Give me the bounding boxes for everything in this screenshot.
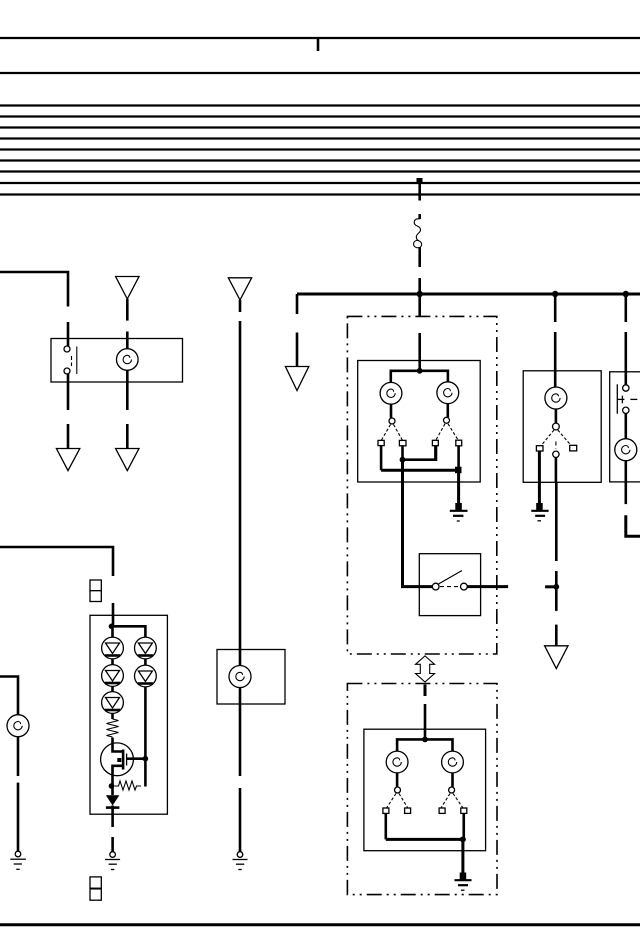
wire entry <box>401 585 433 588</box>
wire <box>126 299 129 321</box>
LED cluster box (high mount stop light) <box>90 615 167 814</box>
switch blade <box>558 430 571 445</box>
wire <box>555 482 558 561</box>
wire <box>17 783 20 852</box>
LED D5 <box>135 665 157 687</box>
wire <box>17 737 20 776</box>
wire entry <box>624 294 627 322</box>
clearance light box <box>523 371 601 483</box>
node junction (source) <box>109 783 115 789</box>
wire <box>67 374 70 410</box>
rheostat terminal <box>623 407 629 413</box>
switch blade <box>381 425 390 441</box>
node tick on bus line 1 <box>317 39 320 51</box>
rheostat wiper <box>617 398 624 400</box>
node junction (gate) <box>143 756 149 762</box>
node junction <box>553 584 559 590</box>
wire bus line 8 <box>0 159 640 161</box>
resistor R1 <box>107 719 119 737</box>
bulb L4 (high beam) <box>380 382 402 404</box>
switch terminal <box>570 445 577 451</box>
wire to lamp failure sensor <box>401 460 404 587</box>
wire <box>624 414 627 439</box>
resistor R2 <box>115 781 142 790</box>
wire <box>126 332 129 350</box>
minus sign <box>630 398 637 400</box>
node tap square on bus line 10 <box>417 178 423 184</box>
bulb L3 <box>7 715 29 737</box>
switch blade dashed middle <box>555 442 557 449</box>
sensor switch terminal <box>461 583 468 590</box>
switch terminal <box>399 440 406 445</box>
wire horizontal bus y=294 <box>297 293 640 296</box>
wire to ground <box>538 451 541 503</box>
switch common terminal <box>389 418 395 424</box>
ground G6 (bolt) <box>455 873 472 891</box>
wire left feed y=272 <box>0 272 68 307</box>
switch contact terminal <box>64 368 70 374</box>
wire <box>111 837 114 852</box>
headlight inner box upper <box>358 361 481 483</box>
wire long vertical <box>239 321 242 776</box>
ground G1 <box>233 852 248 870</box>
wire <box>380 446 383 471</box>
ground G5 (bolt) <box>531 503 548 521</box>
switch terminal <box>439 808 445 813</box>
wire entry <box>424 685 427 697</box>
wire entry <box>418 294 421 317</box>
wire bus line 3 <box>0 104 640 106</box>
wire <box>555 571 558 611</box>
bulb L7 <box>615 439 637 461</box>
wire <box>67 424 70 449</box>
wire <box>624 461 627 504</box>
node junction square <box>455 467 462 474</box>
wire bus line 5 <box>0 126 640 128</box>
wire <box>418 278 421 294</box>
switch blade <box>436 424 445 441</box>
node junction <box>552 291 558 297</box>
wire <box>67 322 70 346</box>
switch terminal <box>378 440 384 445</box>
bottom border line <box>0 923 640 926</box>
wire <box>555 409 558 423</box>
connector triangle <box>56 449 79 471</box>
node junction <box>400 457 406 463</box>
wire output <box>467 585 508 588</box>
headlight inner box lower <box>364 729 486 851</box>
switch common terminal <box>395 787 401 793</box>
switch terminal <box>383 808 389 813</box>
wire <box>451 773 454 787</box>
switch common terminal <box>444 417 450 423</box>
headlight unit box (dash-dot) upper <box>347 316 496 654</box>
wire <box>434 446 437 460</box>
node junction <box>623 291 629 297</box>
wire <box>111 806 114 828</box>
bulb L5 (low beam) <box>437 382 459 404</box>
switch dashed link <box>440 586 460 588</box>
wire bus line 4 <box>0 115 640 117</box>
wire <box>239 300 242 312</box>
wire branch left of bus <box>296 294 299 314</box>
wire <box>296 333 299 367</box>
rheostat bar <box>616 384 618 413</box>
headlight unit box (dash-dot) lower <box>347 684 497 895</box>
wire <box>554 332 557 387</box>
lamp box (front fog light) <box>217 650 285 705</box>
wire <box>626 515 640 536</box>
switch blade bar <box>76 347 78 375</box>
wire bus line 1 <box>0 37 640 39</box>
node junction <box>417 368 423 374</box>
bulb L2 <box>229 666 251 688</box>
ground G4 (bolt) <box>450 503 468 521</box>
wire header <box>397 739 452 773</box>
transistor Q1 (MOSFET) <box>101 738 146 787</box>
connector triangle <box>545 646 568 669</box>
wire <box>390 404 393 418</box>
wire bus line 9 <box>0 170 640 172</box>
switch terminal <box>405 808 411 813</box>
node junction <box>109 624 115 630</box>
connector C1 (2 pins) <box>90 580 101 602</box>
rheostat terminal <box>623 385 629 391</box>
wire bus line 2 <box>0 72 640 74</box>
wire <box>126 424 129 449</box>
connector triangle (to page left) <box>116 277 139 300</box>
wire <box>396 773 399 787</box>
switch blade <box>387 794 397 809</box>
wire link inner terminals <box>403 446 437 460</box>
wire <box>384 813 387 839</box>
double arrow symbol <box>416 656 435 682</box>
wire header <box>391 371 448 383</box>
wire <box>401 446 404 460</box>
switch blade dashed <box>71 356 73 366</box>
wire to ground <box>461 839 464 873</box>
wire ground link <box>386 838 463 841</box>
wire <box>555 625 558 646</box>
wire <box>418 333 421 371</box>
ground G2 <box>105 852 120 870</box>
switch terminal <box>553 451 559 457</box>
node junction <box>460 836 466 842</box>
wire bus line 7 <box>0 148 640 150</box>
relay box (daytime running light relay) <box>51 339 183 383</box>
LED D2 <box>102 665 124 687</box>
wire <box>126 370 129 410</box>
connector C2 (2 pins) <box>90 877 101 900</box>
bulb L9 <box>442 751 464 773</box>
relay coil lamp L1 <box>117 349 139 371</box>
switch blade <box>394 425 403 441</box>
switch contact terminal <box>64 346 70 352</box>
switch terminal <box>456 440 462 446</box>
wire <box>111 786 114 795</box>
switch blade <box>441 794 450 809</box>
wire <box>545 585 556 588</box>
ground G3 <box>10 851 26 869</box>
sensor switch terminal <box>432 583 439 590</box>
wire to ground <box>457 470 460 503</box>
switch common terminal <box>449 787 455 793</box>
wire bus line 11 <box>0 193 640 195</box>
switch blade <box>448 424 458 440</box>
wire entry <box>554 294 557 322</box>
wire branch to right column <box>112 626 146 786</box>
wire far-left feed y=676.5 <box>0 677 18 716</box>
lamp failure sensor box <box>419 554 480 616</box>
switch blade <box>453 794 463 809</box>
fuse F1 <box>414 214 422 267</box>
switch blade <box>399 794 408 809</box>
wire <box>424 704 427 740</box>
LED D4 <box>135 637 157 659</box>
wire ground link <box>381 469 459 472</box>
wire <box>555 458 558 483</box>
wire feed y=547 <box>0 547 113 576</box>
switch terminal <box>536 446 543 451</box>
node junction <box>417 291 423 297</box>
wire left column <box>111 626 114 719</box>
connector triangle <box>116 449 139 471</box>
bulb L8 <box>386 751 408 773</box>
switch terminal <box>432 440 438 445</box>
connector triangle <box>285 367 308 391</box>
LED D3 <box>102 692 124 714</box>
wire <box>624 332 627 385</box>
switch terminal <box>461 808 467 813</box>
wire <box>239 788 242 852</box>
wire bus line 10 <box>0 182 640 184</box>
wire bus line 6 <box>0 137 640 139</box>
wire from tap down <box>418 183 421 201</box>
wire <box>112 603 115 626</box>
wire <box>462 813 465 839</box>
LED D1 <box>102 637 124 659</box>
wire <box>457 446 460 470</box>
rheostat box (light control) <box>610 372 640 482</box>
node junction <box>422 737 428 743</box>
wire <box>446 404 449 418</box>
bulb L6 <box>545 387 567 409</box>
connector triangle (middle feed) <box>228 278 251 300</box>
switch common terminal <box>553 423 560 430</box>
switch blade <box>439 571 463 585</box>
plus sign <box>621 396 623 404</box>
switch blade <box>541 430 554 446</box>
diode D6 <box>106 795 120 807</box>
